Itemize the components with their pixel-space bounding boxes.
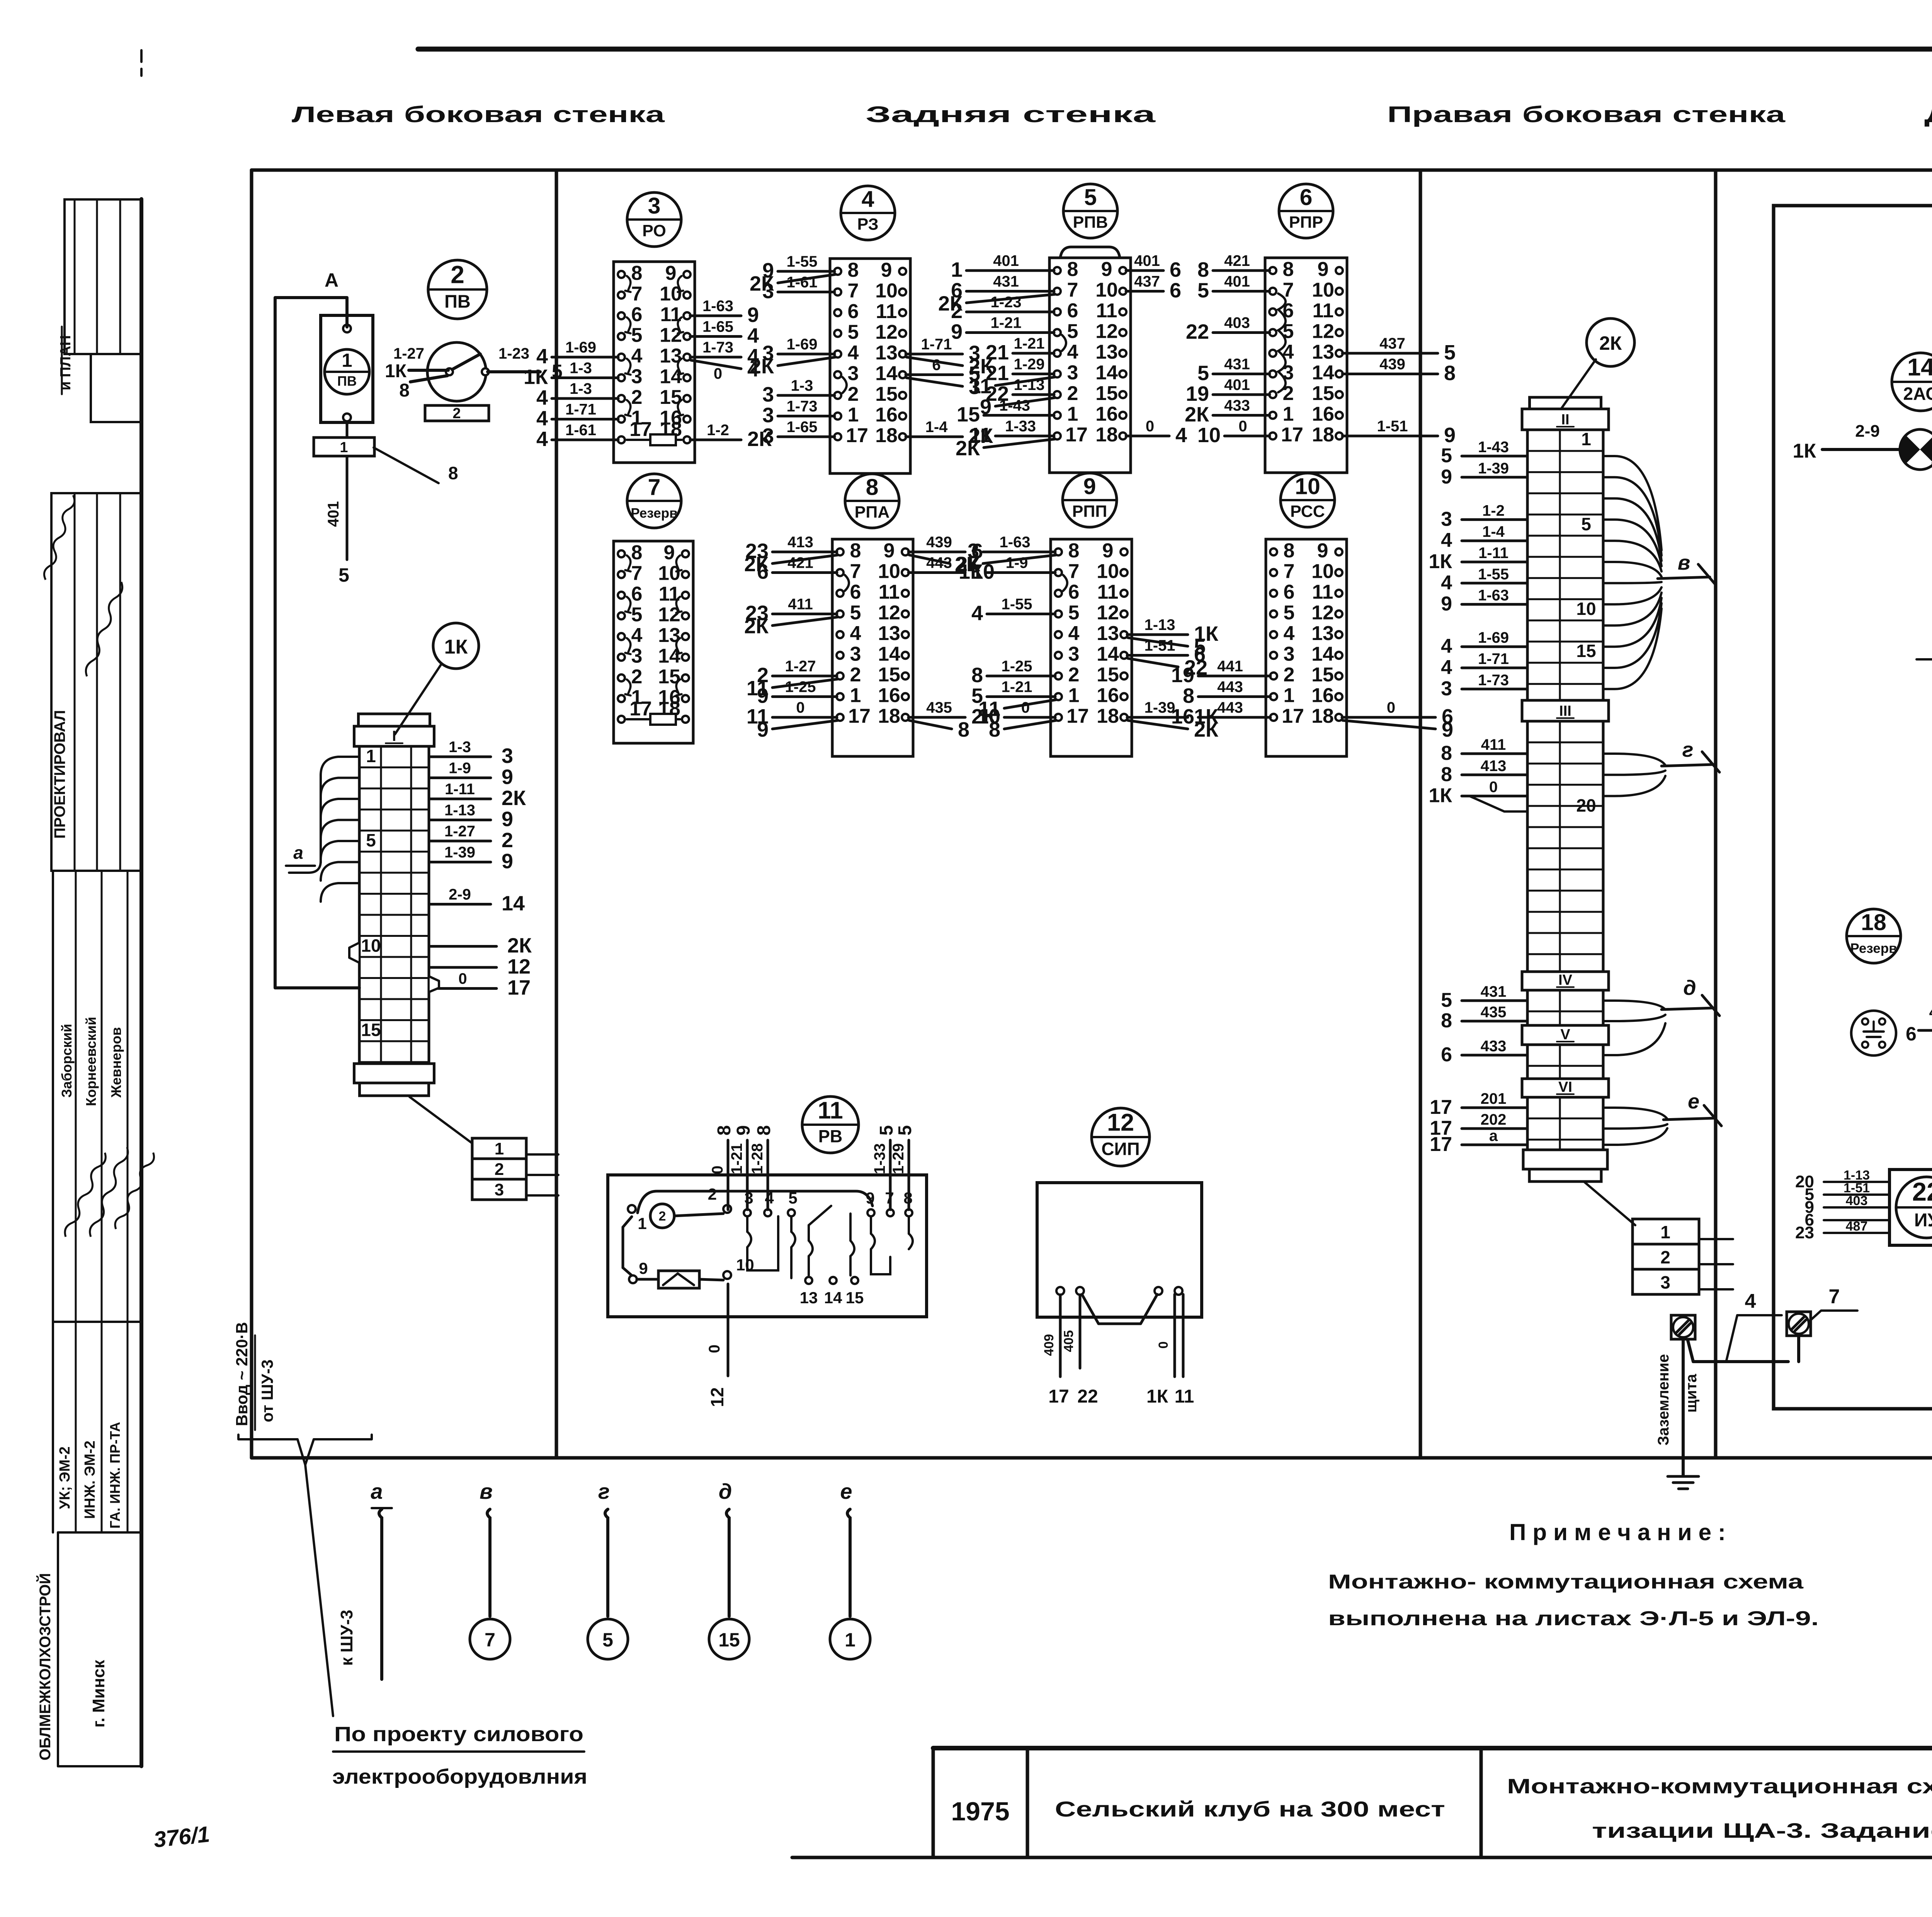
fuse box 1 under component 1 <box>314 422 374 456</box>
svg-text:3: 3 <box>631 366 643 388</box>
svg-text:14: 14 <box>824 1289 842 1307</box>
svg-text:14: 14 <box>875 363 898 385</box>
svg-text:1: 1 <box>850 684 861 707</box>
box 22 ИУ <box>1889 1170 1932 1245</box>
svg-text:5: 5 <box>1197 362 1209 385</box>
relay block 8 РПА <box>744 534 996 756</box>
svg-text:1-13: 1-13 <box>1144 616 1175 633</box>
wire A from component 1 to 1K strip <box>275 269 359 988</box>
earth terminal square on right wall <box>1671 1315 1695 1339</box>
terminal а wire to ШУ-3 <box>337 1479 392 1679</box>
svg-text:8: 8 <box>958 718 969 741</box>
svg-text:487: 487 <box>1846 1219 1868 1234</box>
svg-text:14: 14 <box>1097 643 1119 666</box>
svg-text:18: 18 <box>1312 424 1334 446</box>
wire switch to 5 <box>488 345 563 382</box>
svg-text:437: 437 <box>1379 335 1405 352</box>
svg-text:РПВ: РПВ <box>1073 213 1108 232</box>
svg-text:3: 3 <box>762 404 774 427</box>
svg-text:10: 10 <box>875 280 898 302</box>
svg-text:202: 202 <box>1481 1111 1507 1128</box>
svg-text:ПВ: ПВ <box>337 374 357 389</box>
sheet top border line <box>418 47 1932 52</box>
svg-text:5: 5 <box>1284 602 1295 624</box>
svg-text:1-65: 1-65 <box>702 318 733 335</box>
svg-text:2: 2 <box>631 666 643 688</box>
relay block 7 резерв <box>614 541 693 743</box>
svg-text:11: 11 <box>1175 1386 1194 1407</box>
svg-text:V: V <box>1560 1027 1570 1043</box>
svg-text:1-4: 1-4 <box>925 419 948 436</box>
svg-text:3: 3 <box>762 280 774 303</box>
svg-text:14: 14 <box>1907 354 1932 381</box>
svg-text:1: 1 <box>340 439 348 456</box>
svg-text:15: 15 <box>718 1629 740 1651</box>
svg-text:Резерв: Резерв <box>1850 941 1897 956</box>
svg-text:электрооборудовлния: электрооборудовлния <box>332 1765 587 1788</box>
svg-text:439: 439 <box>926 534 952 551</box>
svg-text:14: 14 <box>1311 643 1334 666</box>
section divider right-wall/door <box>1714 170 1718 1458</box>
terminal е circle 1 <box>830 1619 870 1659</box>
1К strip left bundle to а <box>286 757 359 902</box>
circle 11 РВ <box>802 1096 859 1153</box>
leader to label 8 <box>374 448 458 483</box>
svg-text:г. Минск: г. Минск <box>89 1660 108 1728</box>
svg-text:6: 6 <box>1300 185 1313 210</box>
svg-text:3: 3 <box>1067 362 1078 384</box>
svg-text:I: I <box>392 728 396 744</box>
svg-text:8: 8 <box>848 259 859 281</box>
svg-text:8: 8 <box>399 380 410 401</box>
terminal д wire <box>719 1479 732 1616</box>
svg-text:4: 4 <box>1441 635 1452 657</box>
svg-text:22: 22 <box>1912 1178 1932 1207</box>
component 2 circle ПВ <box>428 260 487 319</box>
svg-text:1-63: 1-63 <box>1478 587 1509 604</box>
svg-text:1-29: 1-29 <box>890 1143 907 1174</box>
svg-text:12: 12 <box>1095 320 1118 343</box>
svg-text:1: 1 <box>845 1629 855 1651</box>
svg-text:3: 3 <box>848 363 859 385</box>
svg-text:16: 16 <box>878 684 900 707</box>
svg-text:443: 443 <box>1217 679 1243 696</box>
svg-text:23: 23 <box>1795 1223 1814 1242</box>
svg-text:3: 3 <box>1441 508 1452 530</box>
svg-text:21: 21 <box>986 341 1009 364</box>
note Примечание <box>1328 1519 1819 1630</box>
svg-text:1-27: 1-27 <box>444 823 475 840</box>
svg-text:12: 12 <box>1312 320 1334 343</box>
svg-text:201: 201 <box>1481 1090 1507 1107</box>
svg-text:1-11: 1-11 <box>445 781 475 798</box>
svg-text:8: 8 <box>1284 540 1295 562</box>
2К strip left wires group 1 <box>1429 439 1527 700</box>
svg-text:7: 7 <box>1829 1285 1840 1308</box>
svg-text:1-63: 1-63 <box>999 534 1030 551</box>
svg-text:401: 401 <box>1224 376 1250 393</box>
svg-text:1-3: 1-3 <box>449 739 471 756</box>
svg-text:431: 431 <box>1481 983 1507 1000</box>
svg-text:10: 10 <box>1295 474 1320 499</box>
svg-text:411: 411 <box>788 596 813 613</box>
svg-text:437: 437 <box>1134 273 1160 290</box>
terminal в circle 7 <box>470 1619 510 1659</box>
component 1 box (ПВ) <box>321 315 373 422</box>
svg-text:10: 10 <box>1197 424 1221 447</box>
svg-text:1-51: 1-51 <box>1377 418 1408 435</box>
svg-text:6: 6 <box>850 581 861 603</box>
svg-text:д: д <box>1683 976 1696 999</box>
svg-text:14: 14 <box>878 643 900 666</box>
circle 22 ИУ <box>1896 1177 1932 1238</box>
svg-text:17: 17 <box>846 424 868 447</box>
svg-text:431: 431 <box>1224 356 1250 373</box>
svg-text:6: 6 <box>1906 1023 1917 1045</box>
svg-text:14: 14 <box>1312 362 1334 384</box>
svg-text:11: 11 <box>876 300 897 323</box>
svg-text:1-3: 1-3 <box>570 360 592 377</box>
svg-text:12: 12 <box>1107 1109 1134 1136</box>
svg-text:5: 5 <box>1068 602 1080 624</box>
svg-text:Сельский клуб на 300 мест: Сельский клуб на 300 мест <box>1055 1797 1445 1821</box>
svg-text:9: 9 <box>639 1259 648 1277</box>
svg-text:1-21: 1-21 <box>1001 679 1032 696</box>
svg-text:5: 5 <box>1084 185 1097 210</box>
section divider left-wall/back-wall <box>555 170 558 1458</box>
svg-text:2К: 2К <box>744 615 769 638</box>
svg-text:6: 6 <box>1441 1044 1452 1066</box>
svg-text:1-39: 1-39 <box>1144 699 1175 716</box>
svg-text:11: 11 <box>818 1097 843 1124</box>
svg-text:СИП: СИП <box>1101 1139 1139 1159</box>
relay block 3 РО <box>524 262 772 463</box>
svg-text:а: а <box>293 843 303 863</box>
svg-text:8: 8 <box>1067 258 1078 281</box>
svg-text:17: 17 <box>848 705 871 727</box>
svg-text:1: 1 <box>1068 684 1080 707</box>
svg-text:401: 401 <box>1929 1004 1932 1021</box>
svg-text:Ввод ~ 220·В: Ввод ~ 220·В <box>233 1322 251 1426</box>
svg-text:12: 12 <box>878 602 900 624</box>
svg-text:441: 441 <box>1217 658 1243 675</box>
svg-text:12: 12 <box>875 321 898 344</box>
2К strip right bundle е <box>1603 1090 1721 1145</box>
svg-text:8: 8 <box>866 475 879 500</box>
svg-text:10: 10 <box>878 560 900 583</box>
svg-text:8: 8 <box>1283 258 1294 281</box>
svg-text:3: 3 <box>631 645 643 667</box>
svg-text:г: г <box>1682 738 1694 761</box>
svg-text:2: 2 <box>451 260 464 288</box>
svg-text:7: 7 <box>848 280 859 302</box>
svg-text:443: 443 <box>1217 699 1243 716</box>
svg-text:а: а <box>371 1479 383 1503</box>
svg-text:401: 401 <box>325 501 342 527</box>
svg-text:7: 7 <box>850 560 861 583</box>
svg-text:9: 9 <box>866 1189 874 1207</box>
svg-text:3: 3 <box>1068 643 1080 666</box>
wire 1К/8 to switch <box>385 345 448 401</box>
svg-text:4: 4 <box>747 324 759 347</box>
svg-text:5: 5 <box>850 602 861 624</box>
note По проекту силового электрооборудования <box>332 1723 587 1788</box>
svg-text:4: 4 <box>631 345 643 367</box>
svg-text:Заземление: Заземление <box>1655 1354 1672 1445</box>
svg-text:17: 17 <box>1048 1386 1069 1407</box>
svg-text:14: 14 <box>502 892 525 915</box>
svg-text:15: 15 <box>957 403 980 426</box>
svg-text:2: 2 <box>850 664 861 686</box>
svg-text:1-61: 1-61 <box>786 274 817 291</box>
svg-text:8: 8 <box>1183 684 1194 708</box>
svg-text:П р и м е ч а н и е :: П р и м е ч а н и е : <box>1509 1519 1726 1545</box>
svg-text:6: 6 <box>1170 258 1181 281</box>
svg-text:е: е <box>1688 1090 1699 1113</box>
svg-text:Задняя стенка: Задняя стенка <box>866 102 1156 127</box>
svg-text:3: 3 <box>1441 678 1452 700</box>
svg-text:7: 7 <box>1284 560 1295 583</box>
svg-text:9: 9 <box>1318 258 1329 281</box>
svg-text:433: 433 <box>1481 1038 1507 1055</box>
svg-text:4: 4 <box>1441 572 1452 594</box>
svg-text:9: 9 <box>502 850 513 873</box>
svg-text:1-73: 1-73 <box>1478 672 1509 689</box>
svg-text:1-65: 1-65 <box>786 419 817 436</box>
svg-text:1К: 1К <box>1429 550 1452 573</box>
svg-text:тизации ЩА-3. Задание завод: тизации ЩА-3. Задание заводу. <box>1592 1819 1932 1842</box>
svg-text:1К: 1К <box>1429 785 1452 807</box>
svg-text:1-23: 1-23 <box>990 294 1021 311</box>
svg-text:4: 4 <box>631 624 643 647</box>
svg-text:ОБЛМЕЖКОЛХОЗСТРОЙ: ОБЛМЕЖКОЛХОЗСТРОЙ <box>36 1573 54 1760</box>
svg-text:1-28: 1-28 <box>749 1143 766 1174</box>
svg-text:9: 9 <box>747 303 759 327</box>
earth bond wire 4 <box>1688 1290 1799 1362</box>
svg-text:1: 1 <box>342 350 352 371</box>
svg-text:13: 13 <box>1097 622 1119 645</box>
svg-text:выполнена на листах Э·Л-5: выполнена на листах Э·Л-5 и ЭЛ-9. <box>1328 1607 1819 1630</box>
svg-text:0: 0 <box>1021 699 1030 716</box>
svg-text:10: 10 <box>1312 279 1334 301</box>
terminal strip 2К <box>1522 397 1609 1182</box>
svg-text:2К: 2К <box>956 437 980 460</box>
svg-text:4: 4 <box>536 407 548 430</box>
svg-text:2: 2 <box>631 386 643 409</box>
left margin table C names <box>53 871 156 1322</box>
svg-text:15: 15 <box>878 664 900 686</box>
svg-text:Левая боковая стенка: Левая боковая стенка <box>292 102 665 127</box>
svg-text:18: 18 <box>1097 705 1119 727</box>
svg-text:ИУ: ИУ <box>1914 1210 1932 1231</box>
1К strip left connector flag <box>349 943 359 962</box>
svg-text:5: 5 <box>1581 514 1591 534</box>
svg-text:1-39: 1-39 <box>1478 460 1509 477</box>
ground symbol <box>1668 1476 1699 1489</box>
svg-text:5: 5 <box>1441 989 1452 1011</box>
svg-text:4: 4 <box>850 622 861 645</box>
label 7 leader at transformer <box>1917 635 1932 659</box>
svg-text:9: 9 <box>664 541 675 564</box>
svg-text:ПРОЕКТИРОВАЛ: ПРОЕКТИРОВАЛ <box>51 710 68 839</box>
svg-text:15: 15 <box>875 383 898 405</box>
svg-text:0: 0 <box>796 699 804 716</box>
svg-text:1: 1 <box>495 1139 504 1158</box>
svg-text:РПР: РПР <box>1289 213 1323 232</box>
svg-text:8: 8 <box>1197 258 1209 281</box>
svg-text:6: 6 <box>631 583 643 605</box>
svg-text:9: 9 <box>757 718 769 741</box>
svg-text:1К: 1К <box>1793 440 1816 462</box>
svg-text:5: 5 <box>876 1125 897 1136</box>
svg-text:5: 5 <box>602 1629 613 1651</box>
svg-text:9: 9 <box>665 262 677 284</box>
svg-text:III: III <box>1559 703 1571 719</box>
svg-text:413: 413 <box>1481 758 1507 775</box>
svg-text:1-69: 1-69 <box>1478 629 1509 646</box>
svg-text:5: 5 <box>895 1125 915 1136</box>
switch symbol 18 <box>1851 1011 1896 1056</box>
svg-text:2К: 2К <box>1185 403 1209 426</box>
time relay block 11 РВ body <box>608 1175 927 1317</box>
svg-text:7: 7 <box>631 283 643 305</box>
svg-text:1-43: 1-43 <box>1478 439 1509 456</box>
svg-text:8: 8 <box>1441 742 1452 764</box>
svg-text:3: 3 <box>1660 1272 1670 1292</box>
svg-text:Правая боковая стенка: Правая боковая стенка <box>1387 102 1786 127</box>
svg-text:А: А <box>325 269 338 291</box>
svg-text:0: 0 <box>458 970 467 987</box>
svg-text:8: 8 <box>850 540 861 562</box>
svg-text:1-21: 1-21 <box>728 1143 745 1174</box>
svg-text:18: 18 <box>1095 424 1118 446</box>
svg-text:1-33: 1-33 <box>1005 418 1036 435</box>
svg-text:2: 2 <box>452 405 461 422</box>
svg-text:Корнеевский: Корнеевский <box>83 1017 99 1106</box>
svg-text:7: 7 <box>631 562 643 585</box>
svg-text:439: 439 <box>1379 356 1405 373</box>
svg-text:4: 4 <box>765 1189 774 1207</box>
svg-text:15: 15 <box>846 1289 864 1307</box>
svg-text:9: 9 <box>757 684 769 708</box>
svg-text:от ШУ-3: от ШУ-3 <box>258 1359 276 1422</box>
svg-text:1-61: 1-61 <box>565 422 596 439</box>
label 7 for door earth square <box>1809 1285 1857 1321</box>
svg-text:1: 1 <box>1581 429 1591 449</box>
svg-text:и ПЛАН: и ПЛАН <box>58 335 74 390</box>
svg-text:8: 8 <box>1068 540 1080 562</box>
svg-text:РСС: РСС <box>1290 502 1325 521</box>
svg-text:18: 18 <box>1311 705 1334 727</box>
switch symbol of component 2 <box>427 342 489 401</box>
svg-text:е: е <box>840 1479 852 1503</box>
svg-text:1: 1 <box>1067 403 1078 426</box>
svg-text:7: 7 <box>1068 560 1080 583</box>
svg-text:22: 22 <box>1186 320 1209 344</box>
svg-text:1: 1 <box>951 258 963 281</box>
svg-text:443: 443 <box>926 555 952 572</box>
svg-text:18: 18 <box>875 424 898 447</box>
left margin table B <box>51 493 141 871</box>
section divider back-wall/right-wall <box>1419 170 1422 1458</box>
svg-text:1К: 1К <box>385 361 407 381</box>
svg-text:1-9: 1-9 <box>1006 555 1028 572</box>
svg-text:13: 13 <box>800 1289 818 1307</box>
svg-text:8: 8 <box>631 541 643 564</box>
circle 4 РЗ <box>841 186 895 240</box>
svg-text:1-27: 1-27 <box>393 345 424 362</box>
svg-text:4: 4 <box>536 345 548 368</box>
svg-text:11: 11 <box>879 581 900 603</box>
wire 18 to 19 401 <box>1906 1004 1932 1045</box>
terminal strip 1К <box>354 714 434 1096</box>
svg-text:II: II <box>1561 412 1569 428</box>
svg-text:10: 10 <box>361 936 381 956</box>
svg-text:1: 1 <box>1284 684 1295 707</box>
svg-text:16: 16 <box>1311 684 1334 707</box>
svg-text:15: 15 <box>1097 664 1119 686</box>
svg-text:1-3: 1-3 <box>791 377 813 394</box>
svg-text:2: 2 <box>1660 1247 1670 1267</box>
svg-text:0: 0 <box>709 1166 726 1174</box>
svg-text:4: 4 <box>862 187 874 212</box>
svg-text:19: 19 <box>1186 382 1209 405</box>
svg-text:5: 5 <box>1444 341 1456 364</box>
svg-text:13: 13 <box>878 622 900 645</box>
svg-text:1-71: 1-71 <box>565 401 596 418</box>
svg-text:1-43: 1-43 <box>999 397 1030 414</box>
svg-text:1-21: 1-21 <box>1014 335 1044 352</box>
svg-text:11: 11 <box>1097 581 1119 603</box>
svg-text:1: 1 <box>366 746 376 766</box>
svg-text:9: 9 <box>733 1125 754 1136</box>
svg-text:в: в <box>1678 551 1690 574</box>
svg-text:4: 4 <box>1745 1290 1756 1313</box>
svg-text:8: 8 <box>754 1125 774 1136</box>
2К strip left wires group 3 <box>1430 983 1527 1156</box>
svg-text:0: 0 <box>714 365 722 382</box>
svg-text:12: 12 <box>1097 602 1119 624</box>
РВ bottom wire 0 to 12 <box>706 1284 728 1407</box>
svg-text:РО: РО <box>642 221 666 240</box>
svg-text:6: 6 <box>848 300 859 323</box>
svg-text:в: в <box>480 1479 493 1503</box>
svg-text:Жевнеров: Жевнеров <box>108 1027 124 1098</box>
svg-text:6: 6 <box>932 357 940 374</box>
svg-text:0: 0 <box>706 1345 723 1353</box>
svg-text:409: 409 <box>1042 1334 1056 1356</box>
svg-text:0: 0 <box>1146 418 1154 435</box>
svg-text:1-9: 1-9 <box>449 760 471 777</box>
left margin signature 1 <box>42 494 76 581</box>
circle 10 РСС <box>1281 473 1335 527</box>
svg-text:8: 8 <box>714 1125 735 1136</box>
relay block 6 РПР <box>1185 252 1456 473</box>
wire 1К 2-9 to lamp 2АС <box>1793 422 1900 462</box>
label Заземление щита <box>1655 1354 1700 1445</box>
terminal г circle 5 <box>588 1619 628 1659</box>
svg-text:403: 403 <box>1224 315 1250 332</box>
svg-text:Монтажно- коммутационная сх: Монтажно- коммутационная схема <box>1328 1571 1804 1593</box>
wires into box 22 <box>1795 1168 1889 1242</box>
svg-text:2: 2 <box>1068 664 1080 686</box>
svg-text:19: 19 <box>1171 664 1194 687</box>
relay block 9 РПП <box>955 534 1219 756</box>
svg-text:1-69: 1-69 <box>786 336 817 353</box>
svg-text:10: 10 <box>1097 560 1119 583</box>
circle 6 РПР <box>1279 184 1333 238</box>
svg-text:0: 0 <box>1238 418 1247 435</box>
